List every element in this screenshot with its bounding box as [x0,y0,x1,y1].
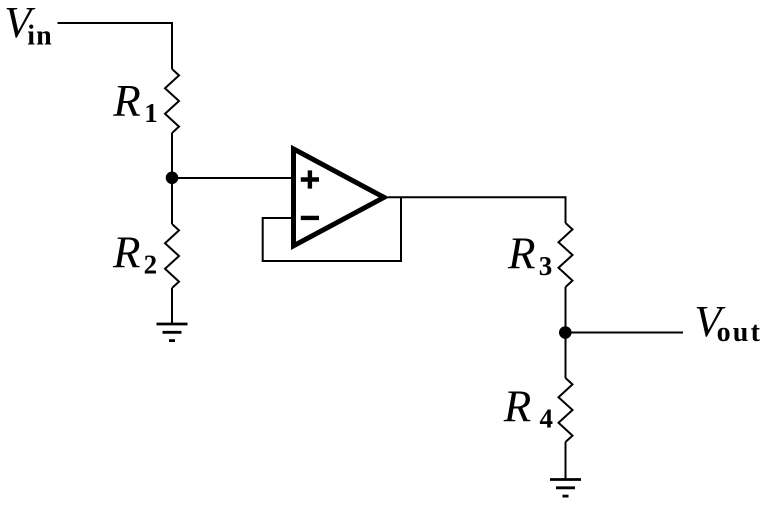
wire node A to op-amp + input [172,177,293,179]
node A junction dot [166,172,179,185]
svg-text:in: in [27,20,52,51]
svg-text:R: R [112,227,141,277]
svg-text:2: 2 [144,249,158,279]
svg-text:1: 1 [144,98,158,128]
node B junction dot [559,326,572,339]
wire node B to Vout [566,332,684,334]
wire node B to R4 top [565,333,567,379]
svg-text:3: 3 [539,251,553,281]
R1 value label [112,76,158,128]
wire Vin to R1 top [58,23,173,69]
resistor R4 [559,378,573,442]
R3 value label [507,229,552,282]
svg-text:out: out [717,317,763,348]
wire node A to R2 top [171,178,173,224]
ground (right) [550,480,581,497]
resistor R1 [165,69,179,133]
feedback wire from - input to output [263,197,401,261]
resistor R3 [559,223,573,287]
op-amp U1 [294,149,385,246]
node Vin label [4,0,52,51]
resistor R2 [165,224,179,288]
output wire to R3 [388,197,566,223]
wire R4 to ground [565,442,567,480]
node Vout label [694,297,762,348]
wire R2 to ground [171,288,173,324]
wire R3 to node B [565,287,567,333]
ground (left) [157,324,188,341]
svg-text:R: R [112,76,141,126]
R4 value label [503,382,553,434]
svg-text:R: R [503,382,532,432]
R2 value label [112,227,157,279]
svg-text:R: R [507,229,536,279]
wire R1 to node A [171,133,173,178]
svg-text:4: 4 [540,404,554,434]
